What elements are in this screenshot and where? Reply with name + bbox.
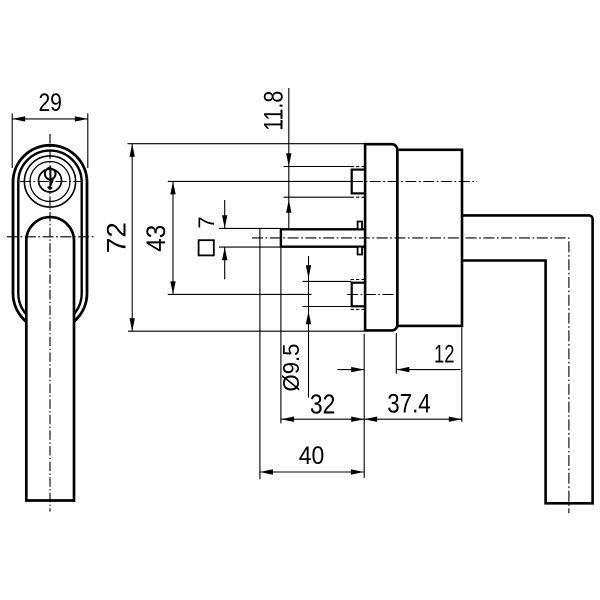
svg-text:72: 72 <box>102 222 132 253</box>
cylinder horizontal centreline <box>20 181 82 183</box>
side view: neck body block <box>397 150 462 326</box>
svg-text:11.8: 11.8 <box>259 91 289 131</box>
spindle and arm axis centreline <box>252 238 569 513</box>
front view handle axis centreline <box>7 236 95 238</box>
dimension 29 (rosette width) <box>12 89 88 168</box>
dimension 37.4 (plate plus body depth) <box>364 328 462 422</box>
bottom screw thread crest lines (dashed) <box>351 280 365 310</box>
side view: square spindle shaft <box>281 229 366 246</box>
front view: rosette inner outline <box>18 151 81 325</box>
svg-text:37.4: 37.4 <box>387 389 431 419</box>
top screw axis centreline <box>352 181 477 183</box>
top fixing screw head <box>352 170 365 194</box>
dimension square 7 (spindle size) <box>194 200 281 279</box>
svg-text:40: 40 <box>299 442 325 470</box>
spindle collar tab bottom <box>358 247 362 255</box>
dimension 11.8 (screw thread dia) <box>259 88 351 228</box>
dimension diameter 9.5 (screw shank) <box>278 256 351 398</box>
svg-text:7: 7 <box>194 216 219 228</box>
dimension 40 (spindle length) <box>260 228 364 479</box>
front view: rosette outer outline <box>13 145 87 330</box>
side view: handle arm (L-shape) <box>462 215 593 503</box>
svg-text:12: 12 <box>434 341 455 369</box>
key slot profile <box>45 167 56 188</box>
dimension 72 (rosette height) <box>102 144 365 332</box>
front view: handle grip lever <box>26 217 74 500</box>
svg-text:Ø9.5: Ø9.5 <box>278 344 304 392</box>
spindle collar tab top <box>358 222 362 230</box>
dimension 32 (spindle protrusion) <box>281 248 364 423</box>
svg-text:29: 29 <box>38 89 62 117</box>
side view: rosette base plate <box>365 144 397 330</box>
top screw thread crest lines (dashed) <box>351 167 365 198</box>
lock cylinder core circle <box>39 169 62 192</box>
lock cylinder outer circle <box>24 156 75 207</box>
dimension 43 (screw spacing) <box>141 181 350 294</box>
front view vertical centreline <box>49 134 51 512</box>
svg-text:43: 43 <box>141 225 171 252</box>
lock cylinder middle circle <box>30 162 70 202</box>
bottom fixing screw head <box>352 283 365 307</box>
dimension 12 (plate thickness) <box>338 333 461 478</box>
svg-text:32: 32 <box>310 389 336 420</box>
bottom screw axis centreline <box>347 294 398 296</box>
